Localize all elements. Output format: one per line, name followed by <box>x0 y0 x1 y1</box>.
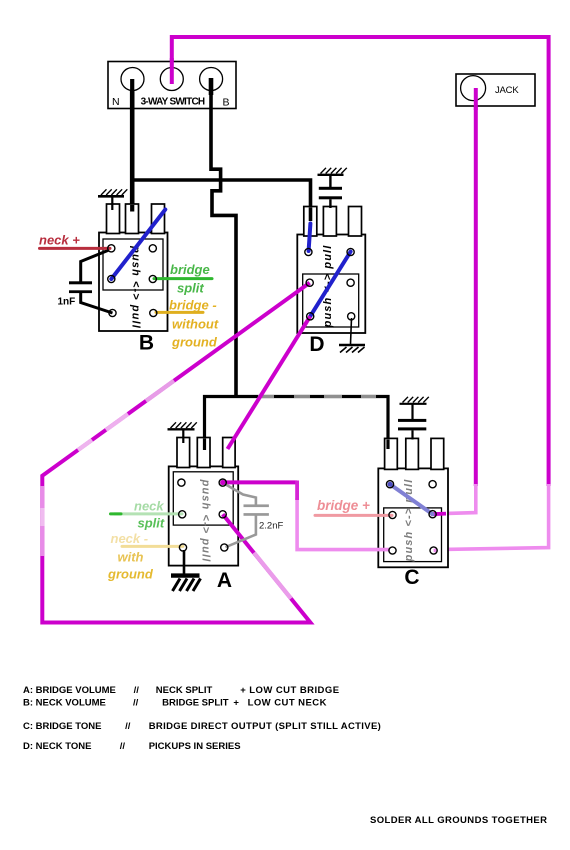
pot A lug 1 <box>177 438 190 468</box>
wire: faded watermark patch on magenta diagonal at pot A <box>254 553 291 599</box>
svg-text:split: split <box>177 281 204 296</box>
pot A body <box>169 438 239 593</box>
wire: blue inside pot B from ML to lug3 <box>111 210 165 280</box>
terminal circles pot A <box>178 479 228 551</box>
wire: magenta stub into pot C MR terminal <box>431 512 446 516</box>
wire: magenta from 3-way switch middle lug up/right/down to far right <box>172 37 549 486</box>
pot B lug 3 <box>152 204 165 234</box>
svg-text://: // <box>134 685 140 696</box>
pot B inner switch rect <box>103 239 163 290</box>
capacitor 1nF on pot B <box>58 281 93 307</box>
capacitor 2.2nF on pot A (gray) <box>244 504 284 531</box>
svg-text:D: D <box>309 333 324 356</box>
legend line A <box>23 685 339 696</box>
svg-text:BRIDGE SPLIT: BRIDGE SPLIT <box>162 697 229 708</box>
switch lug N <box>121 68 144 91</box>
legend line C <box>23 721 381 732</box>
svg-text:push <-> pull: push <-> pull <box>403 479 415 563</box>
svg-text:push <-> pull: push <-> pull <box>200 479 212 563</box>
svg-text:A: A <box>217 569 232 592</box>
svg-text:without: without <box>172 317 219 332</box>
svg-text:PICKUPS IN SERIES: PICKUPS IN SERIES <box>149 741 241 752</box>
svg-text:bridge: bridge <box>170 262 210 277</box>
node: magenta fill at pot A TR terminal <box>220 480 225 485</box>
svg-text:B: B <box>223 97 230 109</box>
wire: pale yellow into pot A BL <box>122 545 183 548</box>
wire: black stub inside pot D lug1 <box>309 208 313 222</box>
svg-text:JACK: JACK <box>495 85 519 96</box>
pot D lug 2 <box>323 207 336 237</box>
pot D inner switch rect <box>303 274 359 327</box>
svg-text:+ LOW CUT BRIDGE: + LOW CUT BRIDGE <box>240 685 339 696</box>
wire: magenta from jack down <box>474 88 478 486</box>
wire: faded watermark patch on magenta left vertical <box>40 486 44 556</box>
wire: violet continuation down right edge to pot C BR terminal <box>436 484 549 550</box>
wire: magenta from D BL down to pot A lug3 <box>228 316 311 449</box>
svg-text:2.2nF: 2.2nF <box>259 521 283 532</box>
wire: salmon bridge + into pot C ML <box>315 514 392 517</box>
pot C body <box>378 438 448 589</box>
3-way switch box <box>108 62 236 109</box>
pot D lug 1 <box>304 207 317 237</box>
wire: thin stem from D BR to bottom ground <box>351 318 352 344</box>
wire: dark green left end segment <box>111 512 122 515</box>
capacitor on pot D <box>319 187 342 208</box>
svg-text://: // <box>133 697 139 708</box>
wire: black from switch B lug with hop over bus, down to lower bus <box>211 81 236 397</box>
terminal circles pot C <box>386 481 437 555</box>
wire: gray from capacitor to A BR <box>226 516 256 548</box>
wire: magenta from A TR to the right <box>223 480 297 484</box>
ground above pot A lug1 <box>168 422 197 443</box>
pot C lug 1 <box>385 438 398 469</box>
wire: blue inside pot D lug1 to TL <box>309 224 311 252</box>
svg-text:bridge +: bridge + <box>317 498 370 513</box>
svg-text:ground: ground <box>107 567 154 582</box>
ground above pot C capacitor <box>400 397 429 419</box>
svg-text:split: split <box>138 516 165 531</box>
svg-text:1nF: 1nF <box>58 297 76 308</box>
wire: black stub inside pot A lug2 <box>203 439 206 451</box>
wire: red neck + into pot B TL <box>40 247 111 250</box>
pot A lug 2 <box>197 438 210 468</box>
pot B body <box>99 204 168 355</box>
pot D body <box>297 207 365 357</box>
svg-text:SOLDER ALL GROUNDS TOGETHER: SOLDER ALL GROUNDS TOGETHER <box>370 815 547 826</box>
wire: black stub inside pot B lug2 <box>130 205 134 212</box>
svg-text:with: with <box>118 550 144 565</box>
switch lug B <box>200 68 223 91</box>
wire: black bus between pots B and D <box>132 180 310 221</box>
wire: magenta stub switch middle <box>170 58 174 84</box>
svg-text:neck -: neck - <box>111 531 149 546</box>
wire: magenta long loop from D ML around left/bottom to A MR <box>42 283 310 623</box>
wire: black stub switch B <box>209 78 214 95</box>
svg-text:BRIDGE DIRECT OUTPUT (SPLIT ST: BRIDGE DIRECT OUTPUT (SPLIT STILL ACTIVE… <box>149 721 381 732</box>
ground below pot A (bold) <box>171 576 201 591</box>
svg-text:NECK SPLIT: NECK SPLIT <box>156 685 213 696</box>
wire: faded watermark patch 2 on magenta diagonal <box>78 440 92 450</box>
svg-text:neck: neck <box>134 499 164 514</box>
jack box <box>456 74 535 106</box>
wire: violet continuation from jack line to pot C MR terminal <box>443 484 476 514</box>
wire: faded watermark patches on lower black bus <box>258 395 274 398</box>
wire: black lower bus between pots A and C <box>205 397 389 453</box>
pot D lug 3 <box>349 207 362 237</box>
wire: light blue inside pot C from TL to MR <box>390 484 433 514</box>
wire: pale green into pot A ML <box>115 512 183 515</box>
pot C lug 2 <box>406 438 419 469</box>
svg-text:B: NECK VOLUME: B: NECK VOLUME <box>23 697 106 708</box>
svg-text:3-WAY SWITCH: 3-WAY SWITCH <box>141 97 205 108</box>
wire: green bridge split into pot B MR <box>154 277 212 280</box>
svg-text:bridge -: bridge - <box>169 298 217 313</box>
wire: black from switch N lug down to pot B middle lug <box>130 81 135 212</box>
pot A inner switch rect <box>173 472 233 525</box>
capacitor on pot C <box>398 419 426 440</box>
svg-text:push <-> pull: push <-> pull <box>130 245 142 329</box>
pot B lug 1 <box>107 204 120 234</box>
svg-text:LOW CUT NECK: LOW CUT NECK <box>248 697 327 708</box>
ground above pot D capacitor <box>318 168 347 188</box>
terminal circles pot B <box>108 245 157 317</box>
wire: yellow bridge- into pot B BR <box>156 311 203 314</box>
wire: black pot B TL terminal to capacitor to BL terminal <box>81 250 109 282</box>
svg-text:N: N <box>112 96 120 108</box>
terminal circles pot D <box>305 248 355 320</box>
pot A lug 3 <box>223 438 235 468</box>
wire: black stub switch N <box>130 79 134 95</box>
node: blue fill at pot C TL terminal <box>388 482 393 487</box>
pot C lug 3 <box>431 438 444 469</box>
wire: black stub inside pot C lug1 <box>386 440 389 450</box>
svg-text:ground: ground <box>171 335 218 350</box>
legend line B <box>23 697 327 708</box>
ground above pot B lug1 <box>98 189 127 210</box>
svg-text:neck +: neck + <box>39 233 80 248</box>
pot C inner switch rect <box>384 508 442 562</box>
jack circle <box>461 76 486 101</box>
svg-text:A: BRIDGE VOLUME: A: BRIDGE VOLUME <box>23 685 116 696</box>
pot B lug 2 <box>126 204 139 234</box>
ground below pot D <box>339 345 365 353</box>
svg-text://: // <box>125 721 131 732</box>
wire: magenta stub from jack circle through box <box>474 88 478 110</box>
wire: blue inside pot D from BL to TR <box>310 252 350 317</box>
switch lug middle <box>160 68 183 91</box>
wire: violet between pot C BL and BR <box>434 548 437 552</box>
wire: violet from corner down and right into pot C BL <box>297 498 390 550</box>
svg-text:C: C <box>404 566 419 589</box>
svg-text:B: B <box>139 332 154 355</box>
wire: black stem from A BL to bottom ground <box>183 550 186 574</box>
legend line D <box>23 741 241 752</box>
svg-text:+: + <box>233 697 239 708</box>
svg-text://: // <box>120 741 126 752</box>
svg-text:D: NECK TONE: D: NECK TONE <box>23 741 91 752</box>
wire: faded watermark patch on magenta diagonal <box>106 414 128 430</box>
svg-text:C: BRIDGE TONE: C: BRIDGE TONE <box>23 721 101 732</box>
wire: gray from A TR to capacitor <box>224 484 256 505</box>
